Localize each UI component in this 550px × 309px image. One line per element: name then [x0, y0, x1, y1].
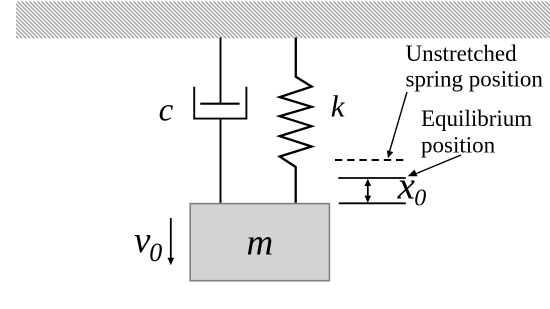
svg-text:0: 0: [414, 186, 426, 212]
svg-text:0: 0: [149, 238, 162, 267]
spring k: [280, 38, 312, 205]
arrow to equilibrium position: [414, 155, 461, 175]
arrow v0 (initial velocity, down): [170, 218, 172, 258]
dashed line unstretched spring position: [335, 159, 403, 161]
svg-text:m: m: [247, 223, 274, 264]
svg-text:Equilibrium: Equilibrium: [421, 106, 532, 131]
equilibrium line (upper): [338, 177, 405, 179]
svg-text:Unstretched: Unstretched: [406, 41, 518, 66]
dimension arrow x0 (double headed): [367, 181, 369, 201]
svg-text:c: c: [159, 92, 174, 128]
wire damper bottom rod: [220, 119, 222, 204]
mass m block: [190, 204, 329, 281]
ceiling (hatched fixed support): [16, 2, 550, 39]
svg-text:position: position: [421, 133, 496, 158]
svg-text:x: x: [397, 165, 416, 208]
svg-text:spring position: spring position: [406, 67, 544, 92]
arrow to unstretched position: [390, 92, 408, 152]
damper c cup: [194, 87, 246, 119]
damper piston plate: [200, 103, 239, 105]
wire damper top rod: [220, 38, 222, 104]
svg-text:k: k: [331, 88, 346, 123]
node line at mass top (lower): [339, 202, 406, 204]
